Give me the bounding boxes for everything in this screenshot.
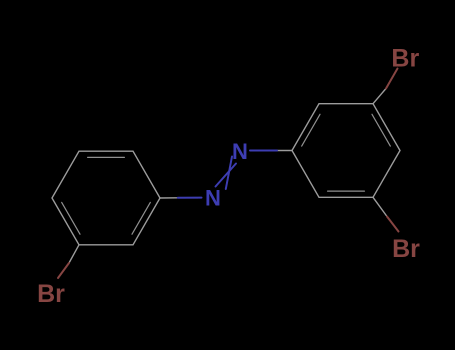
gray half of C1L-N1 bond <box>160 197 178 199</box>
svg-text:Br: Br <box>37 280 65 308</box>
red half of top-right Br bond <box>386 69 398 89</box>
right benzene ring <box>292 104 400 198</box>
red half of bottom-right Br bond <box>387 217 399 232</box>
gray half of left Br bond <box>69 245 79 263</box>
red half of left Br bond <box>58 263 69 278</box>
left benzene ring <box>52 151 160 245</box>
right ring inner double-bond line bottom <box>328 190 365 192</box>
right ring inner double-bond line upper-left <box>302 114 320 146</box>
svg-text:N: N <box>205 185 221 210</box>
right ring inner double-bond line upper-right <box>372 114 390 146</box>
blue half of N2-C1R bond <box>250 150 277 152</box>
svg-text:N: N <box>232 139 248 164</box>
N=N bond line B (steep) <box>226 157 232 190</box>
gray half of top-right Br bond <box>373 89 386 104</box>
left ring inner double-bond line top <box>88 156 125 158</box>
left ring inner double-bond line lower-right <box>132 202 150 234</box>
svg-text:Br: Br <box>392 235 420 263</box>
left ring inner double-bond line lower-left <box>62 202 80 234</box>
svg-text:Br: Br <box>391 44 419 72</box>
blue half of C1L-N1 bond <box>178 197 202 199</box>
gray half of bottom-right Br bond <box>373 197 387 216</box>
gray half of N2-C1R bond <box>277 150 292 152</box>
N=N bond line A (shallow) <box>216 164 237 187</box>
